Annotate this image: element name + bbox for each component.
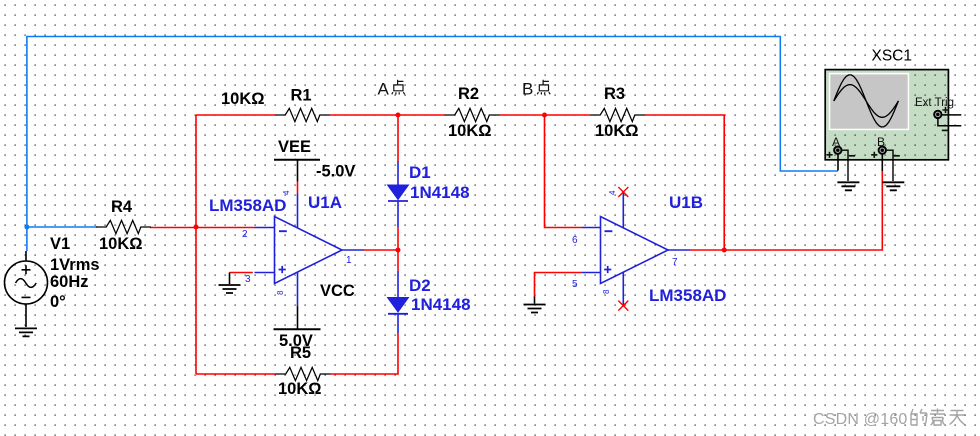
svg-text:V1: V1 — [50, 235, 70, 253]
svg-text:R1: R1 — [291, 87, 312, 105]
svg-text:VCC: VCC — [320, 282, 355, 300]
wire red A node down to D1 — [397, 115, 399, 161]
ground scope B — [882, 182, 904, 190]
junction blue dot — [24, 225, 29, 230]
wire red R2 to B node — [500, 114, 545, 116]
op-amp U1B — [582, 192, 690, 306]
wire red R4 to U1A pin2 — [150, 227, 255, 229]
svg-text:VEE: VEE — [278, 138, 311, 156]
wire black scope B minus to ground — [886, 150, 893, 181]
wire red U1A out to node — [364, 249, 398, 251]
svg-text:R2: R2 — [458, 85, 479, 103]
op-amp U1A — [255, 193, 365, 306]
svg-text:A: A — [378, 80, 390, 99]
wire red gnd to U1B pin5 — [535, 273, 583, 298]
wire black scope A stub — [837, 154, 839, 171]
ground V1 — [15, 328, 37, 336]
svg-text:10KΩ: 10KΩ — [221, 90, 265, 108]
wire red B node to R3 — [545, 114, 591, 116]
wire red R5 left — [196, 373, 276, 375]
wire red A node to R2 — [398, 114, 445, 116]
junction R4 dot — [194, 225, 199, 230]
terminal B — [879, 147, 886, 154]
svg-text:B: B — [522, 80, 533, 99]
svg-text:0°: 0° — [50, 293, 66, 311]
wire red vertical feedback x=196 — [195, 115, 197, 374]
svg-text:8: 8 — [276, 290, 285, 295]
svg-text:1: 1 — [346, 255, 352, 266]
svg-text:4: 4 — [608, 190, 617, 195]
no-connect X top U1B — [618, 187, 628, 197]
wire black scope B stub — [881, 154, 883, 171]
svg-text:7: 7 — [672, 257, 678, 268]
wire red R3 to scope-B corner — [645, 115, 724, 250]
wire red D2 to R5 row — [331, 333, 399, 374]
node B label — [522, 80, 550, 99]
resistor R3 — [590, 108, 645, 121]
svg-text:R3: R3 — [604, 85, 625, 103]
oscilloscope XSC1 — [825, 70, 961, 160]
wire red VEE to U1A power — [297, 181, 299, 193]
svg-text:6: 6 — [572, 235, 578, 246]
wire red B node down to U1B pin6 — [545, 115, 583, 228]
junction scopeB dot — [722, 248, 727, 253]
svg-text:U1A: U1A — [308, 193, 342, 212]
power VCC symbol — [274, 306, 321, 329]
wire red top rail to R1 — [196, 114, 275, 116]
svg-text:10KΩ: 10KΩ — [448, 122, 492, 140]
wire blue junction to R4 — [27, 226, 97, 228]
svg-text:-5.0V: -5.0V — [316, 163, 355, 181]
svg-text:1N4148: 1N4148 — [410, 183, 470, 202]
svg-text:1Vrms: 1Vrms — [50, 256, 100, 274]
junction out dot — [396, 248, 401, 253]
resistor R4 — [96, 220, 151, 233]
ground U1A pin3 — [229, 273, 231, 285]
svg-text:Ext Trig: Ext Trig — [915, 97, 954, 109]
svg-text:D2: D2 — [409, 276, 431, 295]
svg-text:LM358AD: LM358AD — [649, 286, 726, 305]
power VEE symbol — [274, 160, 320, 182]
svg-text:10KΩ: 10KΩ — [99, 235, 143, 253]
svg-text:XSC1: XSC1 — [872, 48, 913, 65]
wire red output row to scope B — [724, 171, 882, 250]
svg-text:5.0V: 5.0V — [279, 332, 313, 350]
svg-text:CSDN @160: CSDN @160 — [813, 411, 908, 428]
wire blue net V1 to R4 and scope A — [27, 37, 838, 252]
svg-text:R4: R4 — [111, 198, 133, 216]
ground U1B pin5 — [534, 297, 536, 304]
svg-text:10KΩ: 10KΩ — [278, 380, 322, 398]
watermark CSDN — [813, 409, 965, 429]
junction A dot — [396, 113, 401, 118]
svg-text:2: 2 — [242, 229, 248, 240]
svg-text:8: 8 — [602, 289, 611, 294]
terminal A — [834, 147, 841, 154]
svg-text:4: 4 — [282, 190, 291, 195]
svg-text:1N4148: 1N4148 — [411, 295, 471, 314]
wire red D1 to out node — [397, 227, 399, 250]
wire red R1 to A node — [330, 114, 398, 116]
svg-text:D1: D1 — [409, 163, 431, 182]
svg-text:3: 3 — [245, 274, 251, 285]
resistor R1 — [275, 108, 330, 121]
source V1 — [5, 251, 48, 327]
resistor R2 — [445, 108, 500, 121]
diode D2 1N4148 — [388, 271, 409, 333]
svg-text:U1B: U1B — [669, 193, 703, 212]
svg-text:60Hz: 60Hz — [50, 273, 89, 291]
svg-text:10KΩ: 10KΩ — [595, 122, 639, 140]
no-connect X bottom U1B — [618, 301, 628, 311]
svg-text:5: 5 — [572, 279, 578, 290]
resistor R5 — [276, 367, 331, 380]
junction B dot — [542, 113, 547, 118]
wire red U1B out to junction — [690, 249, 724, 251]
wire red out node to D2 — [397, 250, 399, 271]
diode D1 1N4148 — [388, 161, 409, 227]
node A label — [378, 80, 405, 99]
wire red gnd to U1A pin3 — [230, 272, 253, 274]
ground scope A — [837, 182, 859, 190]
svg-text:LM358AD: LM358AD — [209, 196, 286, 215]
terminal Ext — [934, 111, 941, 118]
wire black scope A minus to ground — [841, 150, 848, 181]
